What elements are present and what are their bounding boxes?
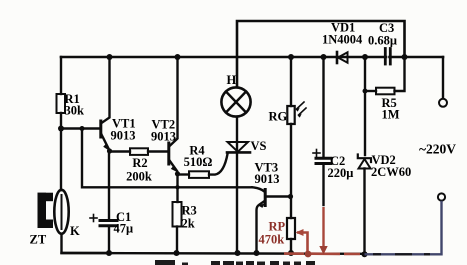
node: R5 left junction xyxy=(363,89,368,94)
wire: main top rail y57 xyxy=(61,56,386,59)
node: VT1 collector on rail xyxy=(107,54,113,60)
transistor VT3 emitter arrow xyxy=(258,203,264,208)
wire: junction down to R5 and VD2 xyxy=(364,57,366,155)
wire: upper rail y21 lamp to AC node xyxy=(237,21,405,87)
diode VD1 triangle xyxy=(338,52,348,62)
node: feedback tap junction xyxy=(80,126,85,131)
wire: VT1 base wire xyxy=(61,127,100,129)
thyristor VS triangle xyxy=(228,142,249,152)
node: VT1 base junction xyxy=(58,126,64,132)
wire: VS cathode down to ground rail xyxy=(236,152,238,253)
svg-text:R2: R2 xyxy=(132,156,147,170)
terminal: AC top circle xyxy=(439,99,447,107)
zener diode VD2 triangle xyxy=(359,159,371,169)
capacitor C2 top plate xyxy=(316,157,331,160)
capacitor C2 wire from rail xyxy=(322,57,324,157)
wire: R4 to VS gate xyxy=(209,154,228,175)
wire: VT2 emitter down through feedback to R3 xyxy=(176,174,178,202)
wire: RG to VT3 collector xyxy=(290,124,292,197)
wire: blue ground rail right section xyxy=(365,201,442,255)
wire: lamp bottom to VS xyxy=(236,117,238,152)
resistor R1 xyxy=(57,94,66,113)
svg-text:9013: 9013 xyxy=(255,172,280,186)
wire: main top rail y57 right of C3 xyxy=(390,56,444,59)
capacitor C1 top plate xyxy=(100,219,117,222)
node: C2 rail junction xyxy=(321,54,327,60)
svg-text:~220V: ~220V xyxy=(419,142,456,157)
svg-text:9013: 9013 xyxy=(151,130,176,144)
photoresistor RG box xyxy=(287,106,294,124)
wire: C1 to ground rail xyxy=(108,226,110,253)
node: VT3 collector junction xyxy=(288,194,293,199)
svg-text:47μ: 47μ xyxy=(114,222,134,236)
piezo transducer ZT xyxy=(38,193,54,228)
svg-text:H: H xyxy=(227,73,237,87)
svg-text:30k: 30k xyxy=(65,104,85,118)
svg-text:RG: RG xyxy=(269,110,288,124)
transistor VT1 emitter xyxy=(102,135,110,150)
node: red wiper ground junction xyxy=(305,251,312,258)
svg-text:K: K xyxy=(70,224,80,238)
zener diode VD2 bar xyxy=(358,155,371,163)
transistor VT2 bar xyxy=(167,143,170,164)
svg-text:9013: 9013 xyxy=(111,129,136,143)
wire: R5 right lead up to rail xyxy=(395,57,405,91)
wire: left vertical upper segment xyxy=(60,57,62,94)
microphone K inner line xyxy=(61,195,63,229)
svg-text:200k: 200k xyxy=(126,170,152,184)
wire: VT1 emitter to R2 xyxy=(110,150,131,152)
svg-text:220μ: 220μ xyxy=(328,166,354,180)
svg-text:1N4004: 1N4004 xyxy=(322,33,363,47)
transistor VT3 bar xyxy=(264,190,267,206)
wire: red annotation along C2 lead xyxy=(322,207,324,247)
node: VT2 collector on rail xyxy=(175,54,181,60)
wire: ground rail bottom xyxy=(62,252,366,255)
node: C3 right junction xyxy=(402,54,408,60)
svg-text:2k: 2k xyxy=(182,217,195,231)
svg-text:ZT: ZT xyxy=(30,233,47,247)
potentiometer RP wiper arrow xyxy=(296,229,304,236)
transistor VT3 emitter xyxy=(257,201,265,253)
svg-text:510Ω: 510Ω xyxy=(184,155,213,169)
capacitor C1 bottom plate xyxy=(100,224,117,227)
lamp H circle xyxy=(221,87,250,116)
transistor VT2 emitter arrow xyxy=(171,165,177,172)
wire: RP red wiper lead xyxy=(297,233,308,253)
svg-text:VS: VS xyxy=(251,139,267,153)
wire: VT2 emitter to R4 xyxy=(178,173,190,175)
node: R3 ground junction xyxy=(174,250,180,256)
diode VD1 cathode bar xyxy=(336,52,339,63)
capacitor C2 plus sign xyxy=(313,150,320,157)
capacitor C3 left plate xyxy=(384,49,387,65)
arrow: red current arrow into rail xyxy=(319,246,327,255)
wire: RP bottom to ground rail xyxy=(290,239,292,253)
photoresistor RG light arrows xyxy=(296,102,306,118)
transistor VT1 emitter arrow xyxy=(103,143,109,150)
wire: K bottom to ground rail xyxy=(62,234,110,253)
node: RG rail junction xyxy=(288,54,294,60)
wire: R5 left lead xyxy=(365,90,376,92)
wire: rail to top AC terminal xyxy=(442,57,444,98)
wire: R3 to ground rail xyxy=(176,227,178,254)
resistor R4 xyxy=(189,171,209,178)
wire: R1 bottom to base node xyxy=(60,113,62,190)
photoresistor RG wire from rail xyxy=(290,57,292,106)
node: VT3 emitter ground junction xyxy=(254,250,260,256)
wire: emitter down to C1 xyxy=(108,151,110,219)
transistor VT2 emitter xyxy=(170,161,178,172)
node: feedback cross junction xyxy=(175,185,179,189)
wire: VD2 to ground rail xyxy=(363,169,365,255)
terminal: AC bottom circle xyxy=(438,193,445,200)
capacitor C3 right plate xyxy=(389,49,392,65)
transistor VT3 base curve xyxy=(252,187,264,191)
wire: feedback vertical x82 xyxy=(82,129,252,188)
transistor VT3 collector wire xyxy=(266,195,291,197)
svg-text:0.68μ: 0.68μ xyxy=(368,34,397,48)
capacitor C1 plus sign xyxy=(90,215,97,222)
wire: red overlay on ground rail xyxy=(284,233,360,255)
svg-text:470k: 470k xyxy=(259,233,285,247)
thyristor VS cathode bar xyxy=(227,151,250,154)
caption fragment at bottom edge xyxy=(155,260,315,265)
node: C1 ground junction xyxy=(106,250,112,256)
resistor R3 xyxy=(173,202,182,227)
svg-text:R3: R3 xyxy=(182,204,197,218)
potentiometer RP box xyxy=(287,218,295,239)
capacitor C2 bottom plate xyxy=(316,162,331,165)
svg-text:1M: 1M xyxy=(382,108,400,122)
wire: collector junction down to RP xyxy=(290,197,292,219)
transistor VT1 collector xyxy=(102,57,110,123)
node: VS ground junction xyxy=(235,250,241,256)
transistor VT2 collector xyxy=(170,57,178,146)
resistor R5 xyxy=(376,88,395,95)
node: VT1 emitter junction xyxy=(107,148,112,153)
resistor R2 xyxy=(130,148,148,155)
wire: C2 to ground rail xyxy=(322,164,324,206)
svg-text:2CW60: 2CW60 xyxy=(371,165,411,179)
wire: R2 to VT2 base xyxy=(148,150,168,152)
lamp H cross xyxy=(226,92,246,113)
transistor VT1 bar xyxy=(99,121,102,137)
microphone K oval xyxy=(54,190,68,234)
node: VD1-C3 junction xyxy=(362,54,368,60)
wire: black dashes over blue rail xyxy=(373,253,430,255)
node: VD2 ground junction xyxy=(362,251,368,257)
node: VT2 emitter junction xyxy=(175,171,180,176)
node: RP ground junction xyxy=(288,250,294,256)
svg-text:RP: RP xyxy=(269,220,286,234)
